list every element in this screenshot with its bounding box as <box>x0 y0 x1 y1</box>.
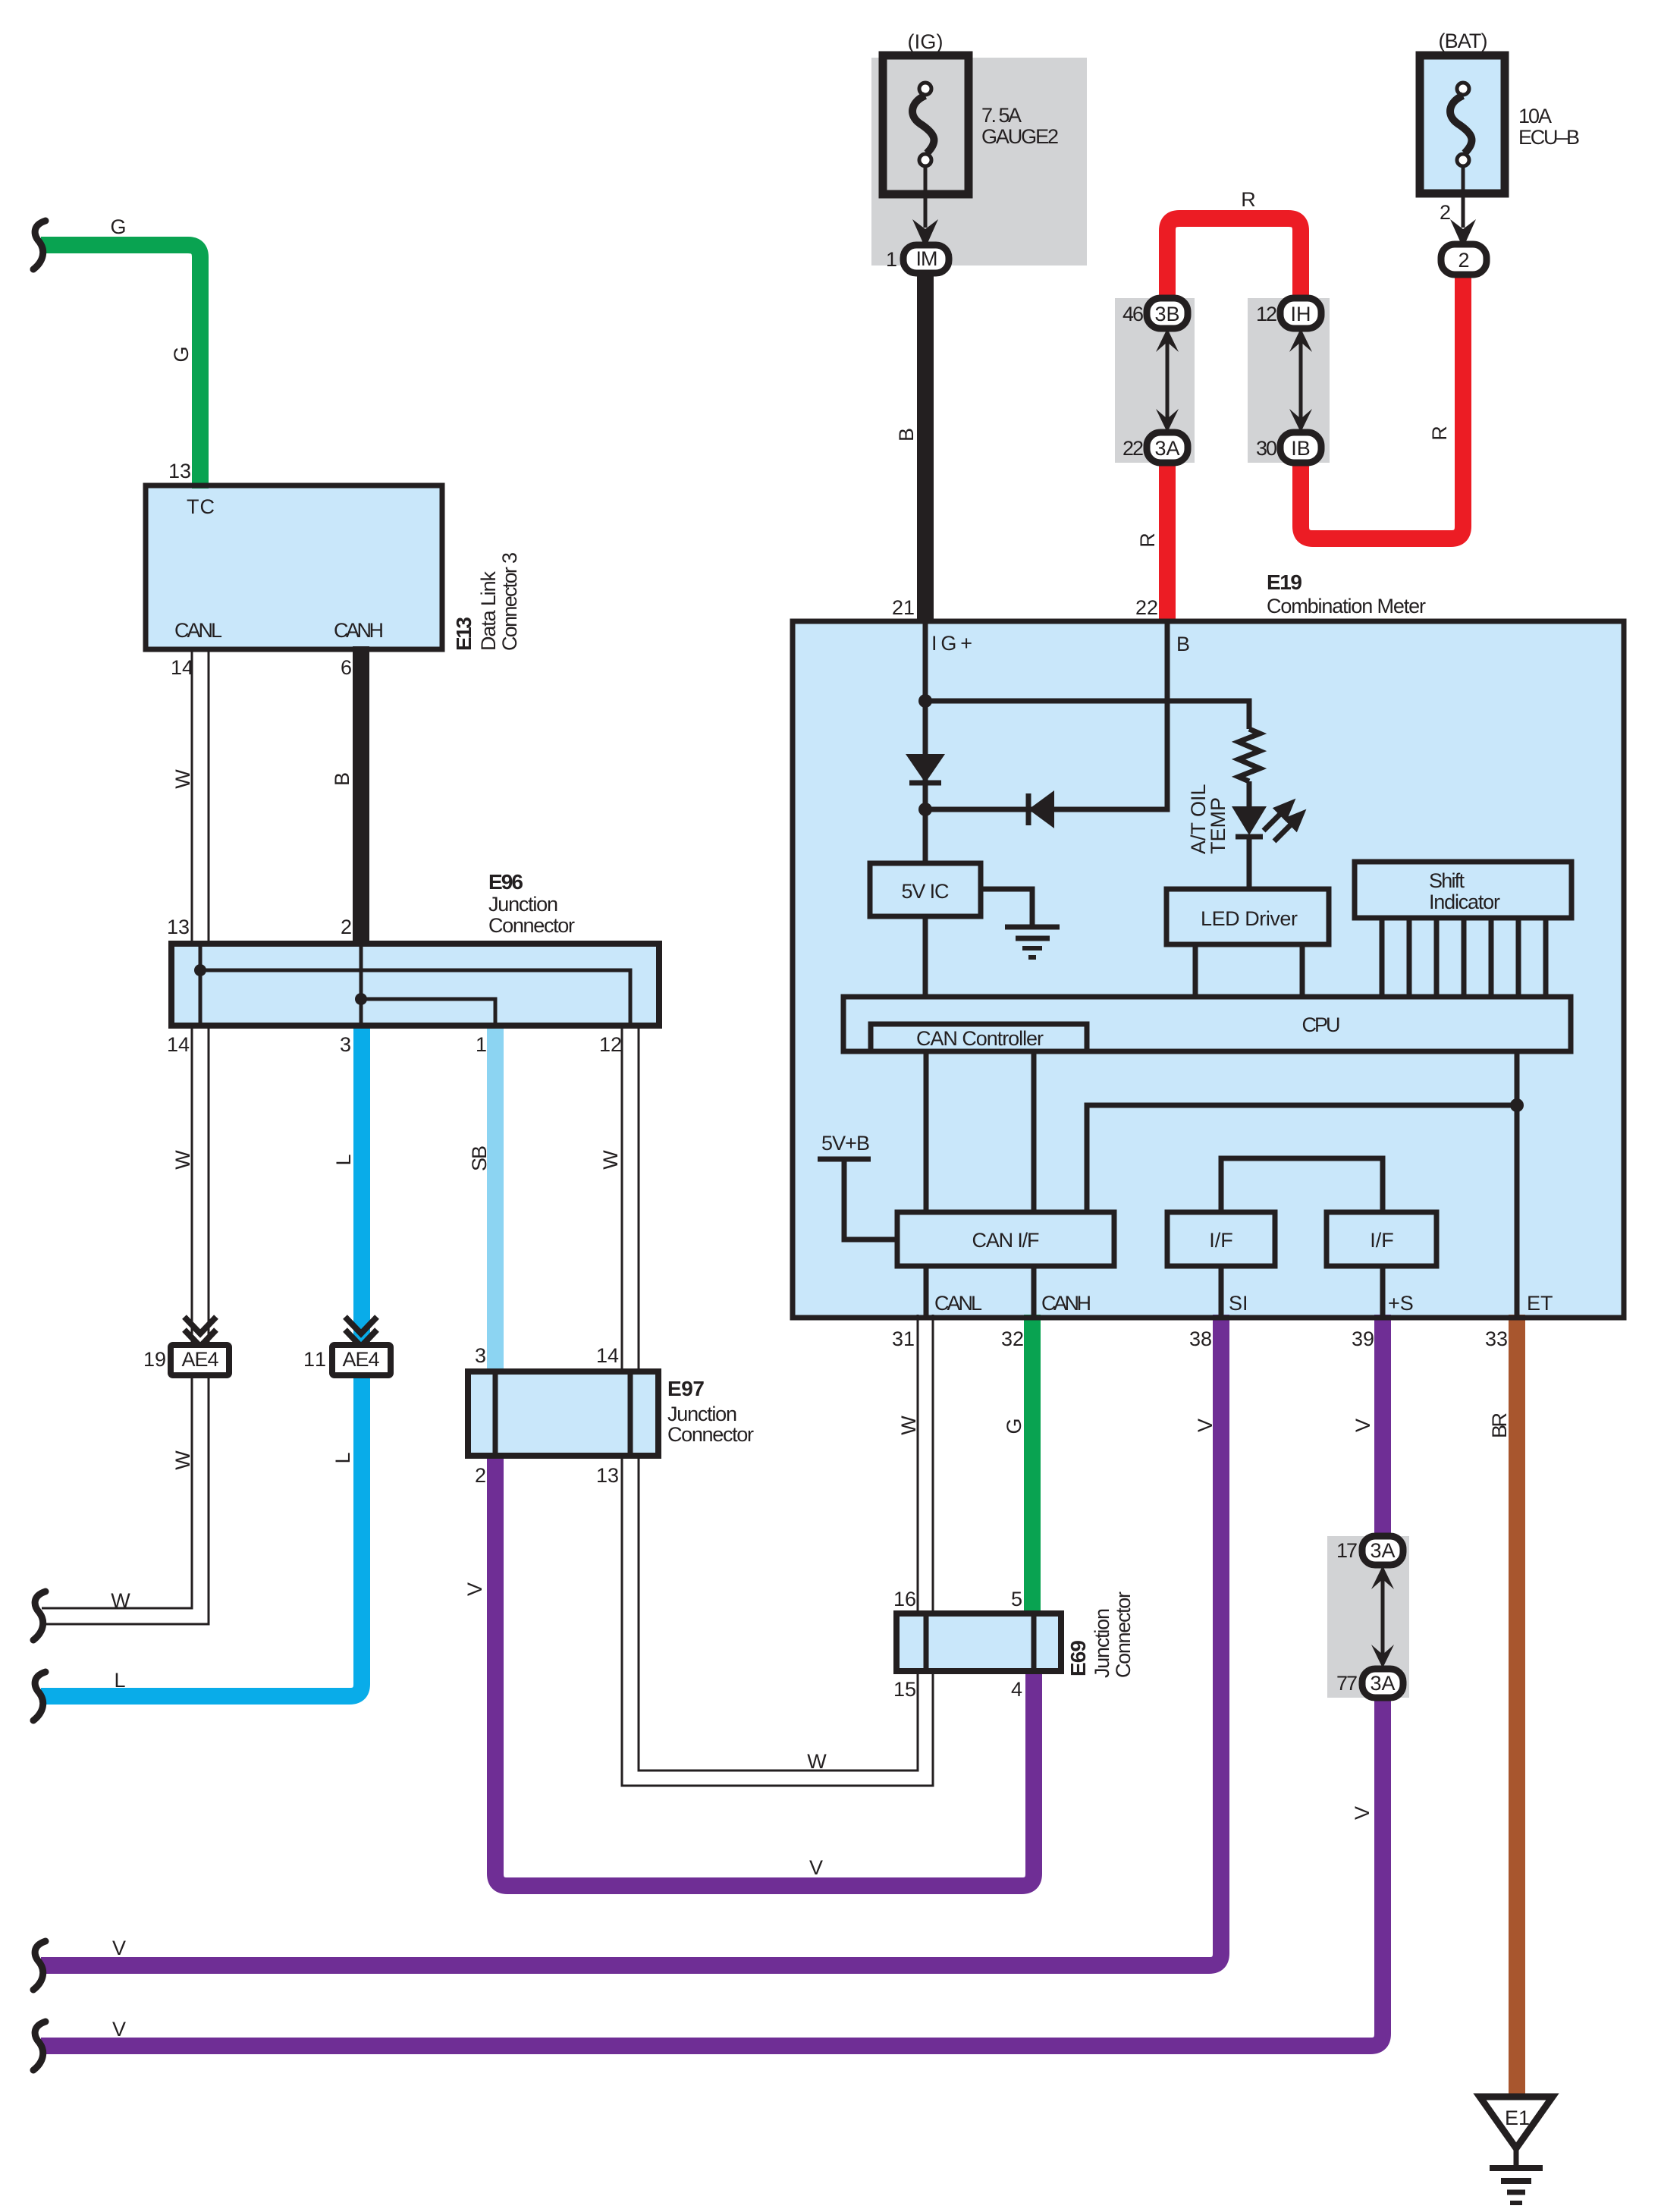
svg-text:LED Driver: LED Driver <box>1201 907 1298 930</box>
svg-text:V: V <box>809 1856 823 1879</box>
svg-text:CANL: CANL <box>934 1292 982 1315</box>
svg-text:CANH: CANH <box>334 619 384 642</box>
svg-text:2: 2 <box>341 916 352 938</box>
svg-text:Junction: Junction <box>488 893 558 916</box>
svg-text:12: 12 <box>599 1033 622 1056</box>
svg-text:V: V <box>463 1582 486 1596</box>
svg-text:V: V <box>1352 1419 1374 1432</box>
svg-text:16: 16 <box>893 1588 916 1610</box>
svg-text:Shift: Shift <box>1429 869 1465 892</box>
svg-text:3A: 3A <box>1371 1672 1396 1695</box>
svg-text:Connector: Connector <box>667 1423 754 1446</box>
svg-text:CAN I/F: CAN I/F <box>972 1229 1040 1252</box>
svg-text:(BAT): (BAT) <box>1439 30 1488 52</box>
svg-text:E96: E96 <box>488 870 523 894</box>
svg-text:Data Link: Data Link <box>477 571 500 652</box>
svg-text:L: L <box>114 1669 125 1692</box>
svg-text:V: V <box>112 1937 126 1959</box>
svg-text:(IG): (IG) <box>908 30 944 53</box>
svg-text:E69: E69 <box>1066 1640 1090 1676</box>
svg-text:13: 13 <box>168 460 191 482</box>
svg-text:W: W <box>111 1589 130 1612</box>
svg-text:G: G <box>170 346 193 362</box>
svg-text:W: W <box>171 1150 194 1170</box>
svg-text:GAUGE2: GAUGE2 <box>981 125 1059 148</box>
svg-text:V: V <box>112 2018 126 2041</box>
svg-text:R: R <box>1428 426 1451 441</box>
svg-text:7. 5A: 7. 5A <box>981 104 1022 127</box>
svg-text:E97: E97 <box>667 1377 705 1400</box>
svg-text:5V+B: 5V+B <box>821 1132 870 1155</box>
svg-text:5: 5 <box>1011 1588 1022 1610</box>
svg-text:AE4: AE4 <box>343 1348 380 1371</box>
svg-text:14: 14 <box>596 1344 619 1367</box>
svg-text:5V IC: 5V IC <box>902 880 950 903</box>
svg-text:TEMP: TEMP <box>1207 797 1229 854</box>
svg-text:L: L <box>331 1452 354 1463</box>
svg-text:Connector: Connector <box>1112 1591 1135 1678</box>
svg-text:V: V <box>1351 1806 1374 1820</box>
svg-text:10A: 10A <box>1518 105 1552 127</box>
svg-text:G: G <box>1003 1418 1025 1434</box>
svg-text:B: B <box>331 772 353 786</box>
svg-text:14: 14 <box>171 656 193 679</box>
svg-text:G: G <box>110 215 126 238</box>
svg-text:38: 38 <box>1189 1328 1212 1350</box>
svg-text:19: 19 <box>143 1348 166 1371</box>
svg-text:B: B <box>1176 633 1190 655</box>
svg-text:E13: E13 <box>452 617 476 651</box>
svg-text:R: R <box>1241 188 1256 211</box>
svg-text:Junction: Junction <box>1091 1608 1113 1678</box>
svg-text:21: 21 <box>892 596 915 619</box>
svg-text:CANL: CANL <box>174 619 222 642</box>
svg-text:22: 22 <box>1135 596 1158 619</box>
svg-text:SI: SI <box>1229 1292 1248 1315</box>
svg-text:I/F: I/F <box>1209 1229 1233 1252</box>
svg-text:13: 13 <box>596 1464 619 1487</box>
svg-text:3B: 3B <box>1155 303 1180 325</box>
svg-text:22: 22 <box>1123 437 1144 460</box>
svg-text:39: 39 <box>1352 1328 1374 1350</box>
svg-text:CAN Controller: CAN Controller <box>916 1027 1044 1050</box>
svg-text:W: W <box>599 1150 622 1170</box>
svg-text:12: 12 <box>1256 303 1277 325</box>
svg-text:CPU: CPU <box>1302 1013 1341 1036</box>
svg-text:3: 3 <box>475 1344 486 1367</box>
svg-text:11: 11 <box>303 1348 326 1371</box>
svg-text:15: 15 <box>893 1678 916 1701</box>
svg-text:CANH: CANH <box>1041 1292 1091 1315</box>
svg-text:33: 33 <box>1485 1328 1508 1350</box>
svg-text:Indicator: Indicator <box>1429 891 1500 913</box>
svg-text:13: 13 <box>167 916 190 938</box>
svg-text:3A: 3A <box>1371 1539 1396 1562</box>
svg-text:46: 46 <box>1123 303 1144 325</box>
svg-text:3A: 3A <box>1155 437 1180 460</box>
svg-text:2: 2 <box>1440 201 1451 224</box>
svg-text:W: W <box>171 769 194 789</box>
svg-text:SB: SB <box>468 1145 491 1171</box>
svg-text:4: 4 <box>1011 1678 1022 1701</box>
svg-text:3: 3 <box>340 1033 351 1056</box>
svg-text:B: B <box>895 428 918 441</box>
svg-text:17: 17 <box>1336 1539 1358 1562</box>
svg-text:31: 31 <box>892 1328 915 1350</box>
svg-text:+S: +S <box>1388 1292 1414 1315</box>
svg-text:R: R <box>1136 533 1159 548</box>
svg-text:V: V <box>1194 1419 1217 1432</box>
svg-text:W: W <box>807 1750 827 1773</box>
svg-text:1: 1 <box>476 1033 487 1056</box>
svg-text:14: 14 <box>167 1033 190 1056</box>
svg-text:6: 6 <box>341 656 352 679</box>
svg-text:77: 77 <box>1336 1672 1358 1695</box>
svg-text:BR: BR <box>1488 1412 1511 1438</box>
svg-text:TC: TC <box>187 495 215 518</box>
svg-text:ET: ET <box>1527 1292 1553 1315</box>
svg-text:W: W <box>897 1415 920 1435</box>
svg-text:Connector 3: Connector 3 <box>498 552 521 651</box>
svg-text:E19: E19 <box>1267 570 1302 594</box>
svg-text:L: L <box>332 1154 355 1165</box>
svg-text:IM: IM <box>916 247 938 270</box>
svg-text:ECU–B: ECU–B <box>1518 126 1580 149</box>
svg-text:Junction: Junction <box>667 1403 737 1425</box>
svg-text:Connector: Connector <box>488 914 575 937</box>
svg-text:32: 32 <box>1001 1328 1024 1350</box>
svg-text:2: 2 <box>1458 249 1469 272</box>
svg-text:1: 1 <box>886 248 897 271</box>
svg-text:W: W <box>171 1450 194 1470</box>
svg-text:IH: IH <box>1291 303 1311 325</box>
svg-text:30: 30 <box>1256 437 1277 460</box>
svg-text:Combination Meter: Combination Meter <box>1267 595 1426 617</box>
svg-text:IB: IB <box>1291 437 1311 460</box>
svg-text:2: 2 <box>475 1464 486 1487</box>
svg-text:E1: E1 <box>1505 2107 1530 2129</box>
svg-text:AE4: AE4 <box>182 1348 219 1371</box>
svg-text:I/F: I/F <box>1370 1229 1394 1252</box>
